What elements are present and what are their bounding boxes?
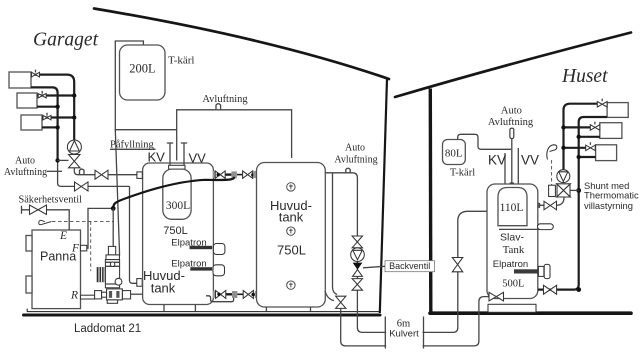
- svg-text:Backventil: Backventil: [389, 261, 430, 271]
- svg-text:Tank: Tank: [503, 244, 525, 256]
- svg-text:200L: 200L: [129, 62, 155, 76]
- svg-text:Kulvert: Kulvert: [389, 329, 419, 340]
- svg-text:Säkerhetsventil: Säkerhetsventil: [19, 195, 83, 206]
- svg-text:Avluftning: Avluftning: [488, 117, 534, 128]
- svg-text:Laddomat 21: Laddomat 21: [74, 323, 141, 335]
- svg-text:Avluftning: Avluftning: [202, 94, 248, 105]
- svg-text:VV: VV: [521, 153, 539, 168]
- svg-text:Huset: Huset: [561, 66, 608, 87]
- svg-text:110L: 110L: [500, 202, 524, 214]
- svg-text:KV: KV: [148, 150, 166, 165]
- svg-text:Auto: Auto: [501, 106, 522, 117]
- svg-text:Auto: Auto: [15, 156, 35, 167]
- svg-text:T-kärl: T-kärl: [168, 55, 194, 67]
- svg-text:tank: tank: [279, 210, 304, 225]
- svg-text:Panna: Panna: [40, 250, 76, 264]
- svg-text:R: R: [70, 290, 78, 302]
- svg-text:T-kärl: T-kärl: [450, 168, 475, 179]
- svg-text:Garaget: Garaget: [33, 30, 99, 51]
- svg-text:Auto: Auto: [345, 142, 365, 153]
- svg-text:Avluftning: Avluftning: [4, 167, 47, 178]
- svg-text:F: F: [71, 242, 80, 254]
- svg-text:KV: KV: [488, 153, 506, 168]
- svg-text:Elpatron: Elpatron: [493, 259, 528, 270]
- svg-text:300L: 300L: [166, 200, 190, 212]
- svg-text:VV: VV: [189, 151, 207, 166]
- svg-text:750L: 750L: [163, 225, 187, 237]
- svg-text:500L: 500L: [502, 279, 524, 290]
- svg-text:Thermomatic: Thermomatic: [584, 189, 639, 200]
- svg-text:villastyrning: villastyrning: [584, 200, 633, 211]
- svg-text:tank: tank: [151, 281, 176, 296]
- svg-text:750L: 750L: [277, 243, 306, 258]
- svg-text:Slav-: Slav-: [500, 231, 524, 243]
- svg-text:Avluftning: Avluftning: [334, 154, 377, 165]
- svg-text:E: E: [59, 230, 67, 242]
- svg-text:80L: 80L: [445, 148, 463, 160]
